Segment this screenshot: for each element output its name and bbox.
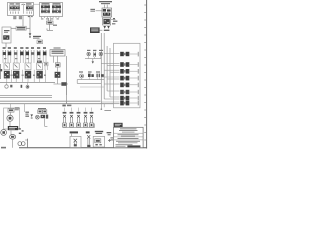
- page background: [0, 0, 150, 150]
- mid terminal labels row 2: [4, 58, 40, 59]
- wire fan relay drop: [10, 112, 12, 115]
- broil label: [86, 131, 90, 133]
- box A right switch bank: [26, 5, 32, 14]
- surface switch SW4: [20, 50, 23, 56]
- wire stub under bus: [6, 82, 8, 84]
- wire stubs below bus right: [100, 104, 102, 109]
- ignitor element cross: [36, 115, 40, 119]
- title text row 1: [120, 127, 137, 130]
- box A left switch bank: [10, 5, 20, 14]
- wire thermostat drop: [57, 56, 59, 63]
- surface switch SW3: [14, 50, 17, 56]
- transformer T1 label box: [16, 26, 26, 30]
- heating element E1: [63, 115, 67, 127]
- harness vertical W2: [103, 33, 105, 99]
- oven relay block: [61, 82, 66, 86]
- box A label text top: [10, 3, 15, 4]
- wire motor drop: [9, 121, 11, 126]
- wire ignitor drop: [44, 118, 46, 126]
- heating element E2: [70, 115, 74, 127]
- wire element common: [63, 127, 95, 129]
- harness vertical W3: [106, 46, 108, 91]
- coil loops: [18, 142, 22, 146]
- wire box A right drop: [29, 16, 31, 34]
- title part number dark block: [127, 145, 140, 147]
- terminal block TB1: [102, 8, 112, 17]
- wire tall box to transformer: [11, 27, 16, 29]
- wire motor block to lamp: [10, 130, 12, 134]
- burner labels between: [11, 75, 46, 76]
- surface switch SW5: [26, 50, 29, 56]
- wire loop to bottom: [27, 139, 29, 148]
- box A left bank contact blob: [10, 7, 20, 9]
- title text row 2: [118, 133, 139, 136]
- fuse block below box B: [47, 21, 54, 24]
- wire thermostat to relay: [57, 78, 59, 84]
- burner receptacle B3: [25, 63, 31, 78]
- plug P1: [104, 52, 138, 57]
- wire tall box drop: [5, 43, 7, 48]
- ground tag under box: [104, 110, 111, 111]
- surface switch SW6: [31, 50, 34, 56]
- note block dark: [114, 123, 123, 127]
- ignitor contact blocks: [41, 115, 45, 118]
- page number mark bottom-left: [1, 147, 6, 149]
- stack arrow contacts: [103, 26, 106, 29]
- small part under bus: [62, 105, 65, 107]
- fan relay small box: [8, 109, 14, 113]
- wire bus to fan relay: [10, 104, 12, 109]
- ignitor left symbol: [30, 114, 33, 117]
- plug P6: [107, 90, 138, 94]
- box A center cam symbol: [22, 3, 26, 6]
- bus L1: [0, 81, 55, 83]
- node label right of fuse: [53, 25, 57, 26]
- wires receptacles to bus: [7, 70, 46, 83]
- warmer switch small box: [44, 62, 48, 66]
- wire transformer to vertical: [26, 27, 30, 29]
- bake element enclosure: [70, 136, 81, 147]
- fan label right: [15, 107, 20, 108]
- element feed stubs: [65, 108, 92, 112]
- surface switch SW2: [8, 50, 11, 56]
- surface switch SW1: [3, 50, 6, 56]
- terminal block TB2: [103, 18, 111, 25]
- control box A (clock/switch assembly): [8, 3, 34, 16]
- box B left bank contact blobs: [41, 6, 50, 8]
- probe marks right of light box: [107, 132, 112, 133]
- surface switch SW7: [37, 50, 40, 56]
- plug P3: [104, 69, 138, 74]
- title block left tabs: [110, 137, 113, 138]
- box B left bank: [41, 5, 49, 13]
- wire box A left drop: [22, 16, 24, 27]
- control board connector box: [114, 43, 141, 108]
- tall box label: [4, 30, 10, 31]
- title text row 4: [116, 140, 140, 143]
- heating element E5: [90, 115, 94, 127]
- thermostat contact block: [55, 72, 61, 78]
- motor label block dark: [8, 126, 18, 130]
- wire fuse drop: [49, 24, 51, 30]
- plug P8: [101, 101, 138, 106]
- box B right bank contact blobs: [52, 6, 61, 8]
- frame bottom line: [19, 147, 147, 149]
- oven light enclosure: [93, 136, 104, 147]
- burner receptacle B1: [0, 63, 10, 79]
- thermal fuse symbols under bus: [5, 85, 8, 88]
- harness vertical W4: [109, 48, 111, 97]
- wire selector right drop long: [66, 56, 68, 104]
- latch solenoid bracket: [24, 104, 26, 112]
- box A terminal marks right: [28, 16, 30, 17]
- branch terminal marks: [113, 18, 115, 19]
- heating element E3: [77, 115, 81, 127]
- broil element symbol: [87, 135, 90, 138]
- box A right bank contact blob: [26, 7, 33, 9]
- element labels row: [63, 112, 94, 114]
- title text row 5: [116, 143, 133, 146]
- title block box: [114, 127, 144, 147]
- TB1 left label: [90, 9, 95, 10]
- heating element E4: [84, 115, 88, 127]
- limit switch label: [33, 36, 41, 37]
- lamp oval: [10, 135, 16, 140]
- door switch cluster upper: [85, 50, 103, 64]
- oven light label: [95, 131, 103, 132]
- box B label text top: [42, 3, 50, 4]
- frame right edge ticks: [144, 5, 146, 140]
- power label block dark: [90, 27, 100, 33]
- wire box A to box B: [34, 3, 40, 5]
- limit switch symbol: [29, 33, 32, 36]
- wire TB1 left: [96, 10, 102, 12]
- wire TB2 right branch: [111, 19, 116, 21]
- wires switch row drops: [3, 56, 46, 63]
- plug P2: [101, 62, 138, 67]
- wire power label to stack: [100, 29, 103, 31]
- ignitor terminal boxes: [38, 110, 42, 114]
- plug P4: [101, 76, 138, 81]
- box B right bank: [52, 5, 60, 13]
- convection fan enclosure: [4, 108, 20, 129]
- frame right edge line: [146, 0, 148, 149]
- control box B (oven control assembly): [40, 3, 63, 17]
- title text row 3: [118, 137, 139, 140]
- extra contact marks on B4 column: [37, 61, 42, 63]
- wires stack top: [104, 5, 106, 8]
- lock relay tall box: [2, 27, 11, 43]
- burner receptacle B4: [36, 63, 42, 78]
- wire box B bottom pair: [48, 18, 50, 21]
- box B terminal ticks below: [42, 17, 59, 19]
- ignitor label above: [38, 108, 46, 109]
- wire lamp drop: [12, 139, 14, 148]
- box B terminal labels below: [41, 18, 43, 19]
- bake label: [70, 131, 78, 133]
- plug P7: [104, 96, 138, 101]
- box A terminal labels below: [13, 16, 16, 17]
- door latch cluster lower: [77, 71, 104, 87]
- top-right stack label: [99, 1, 112, 2]
- bus N upper: [0, 94, 52, 96]
- wire relay drop: [66, 86, 68, 95]
- bus L2 upper: [0, 100, 101, 102]
- title block divider 2: [114, 136, 144, 138]
- burner receptacle B2: [13, 63, 19, 78]
- plug P5: [104, 83, 138, 88]
- bus L2 lower: [0, 103, 114, 105]
- small contact marks: [19, 128, 21, 129]
- wire selector left drop: [53, 56, 55, 63]
- title block divider 1: [114, 132, 144, 134]
- harness vertical W1: [100, 33, 102, 104]
- limit switch box: [37, 40, 43, 44]
- surface switch SW8: [43, 50, 46, 56]
- wire corner at fuse bottom: [47, 29, 53, 31]
- oven thermostat body: [55, 63, 60, 67]
- tall box coil blob: [3, 35, 9, 39]
- bake motor M2: [1, 130, 7, 136]
- oven selector switch box: [50, 50, 65, 56]
- fan motor M1: [7, 115, 13, 121]
- surface switch labels row 1: [3, 47, 46, 49]
- oven selector label above: [54, 47, 61, 48]
- bus N lower: [0, 96, 52, 98]
- title block divider 3: [114, 139, 144, 141]
